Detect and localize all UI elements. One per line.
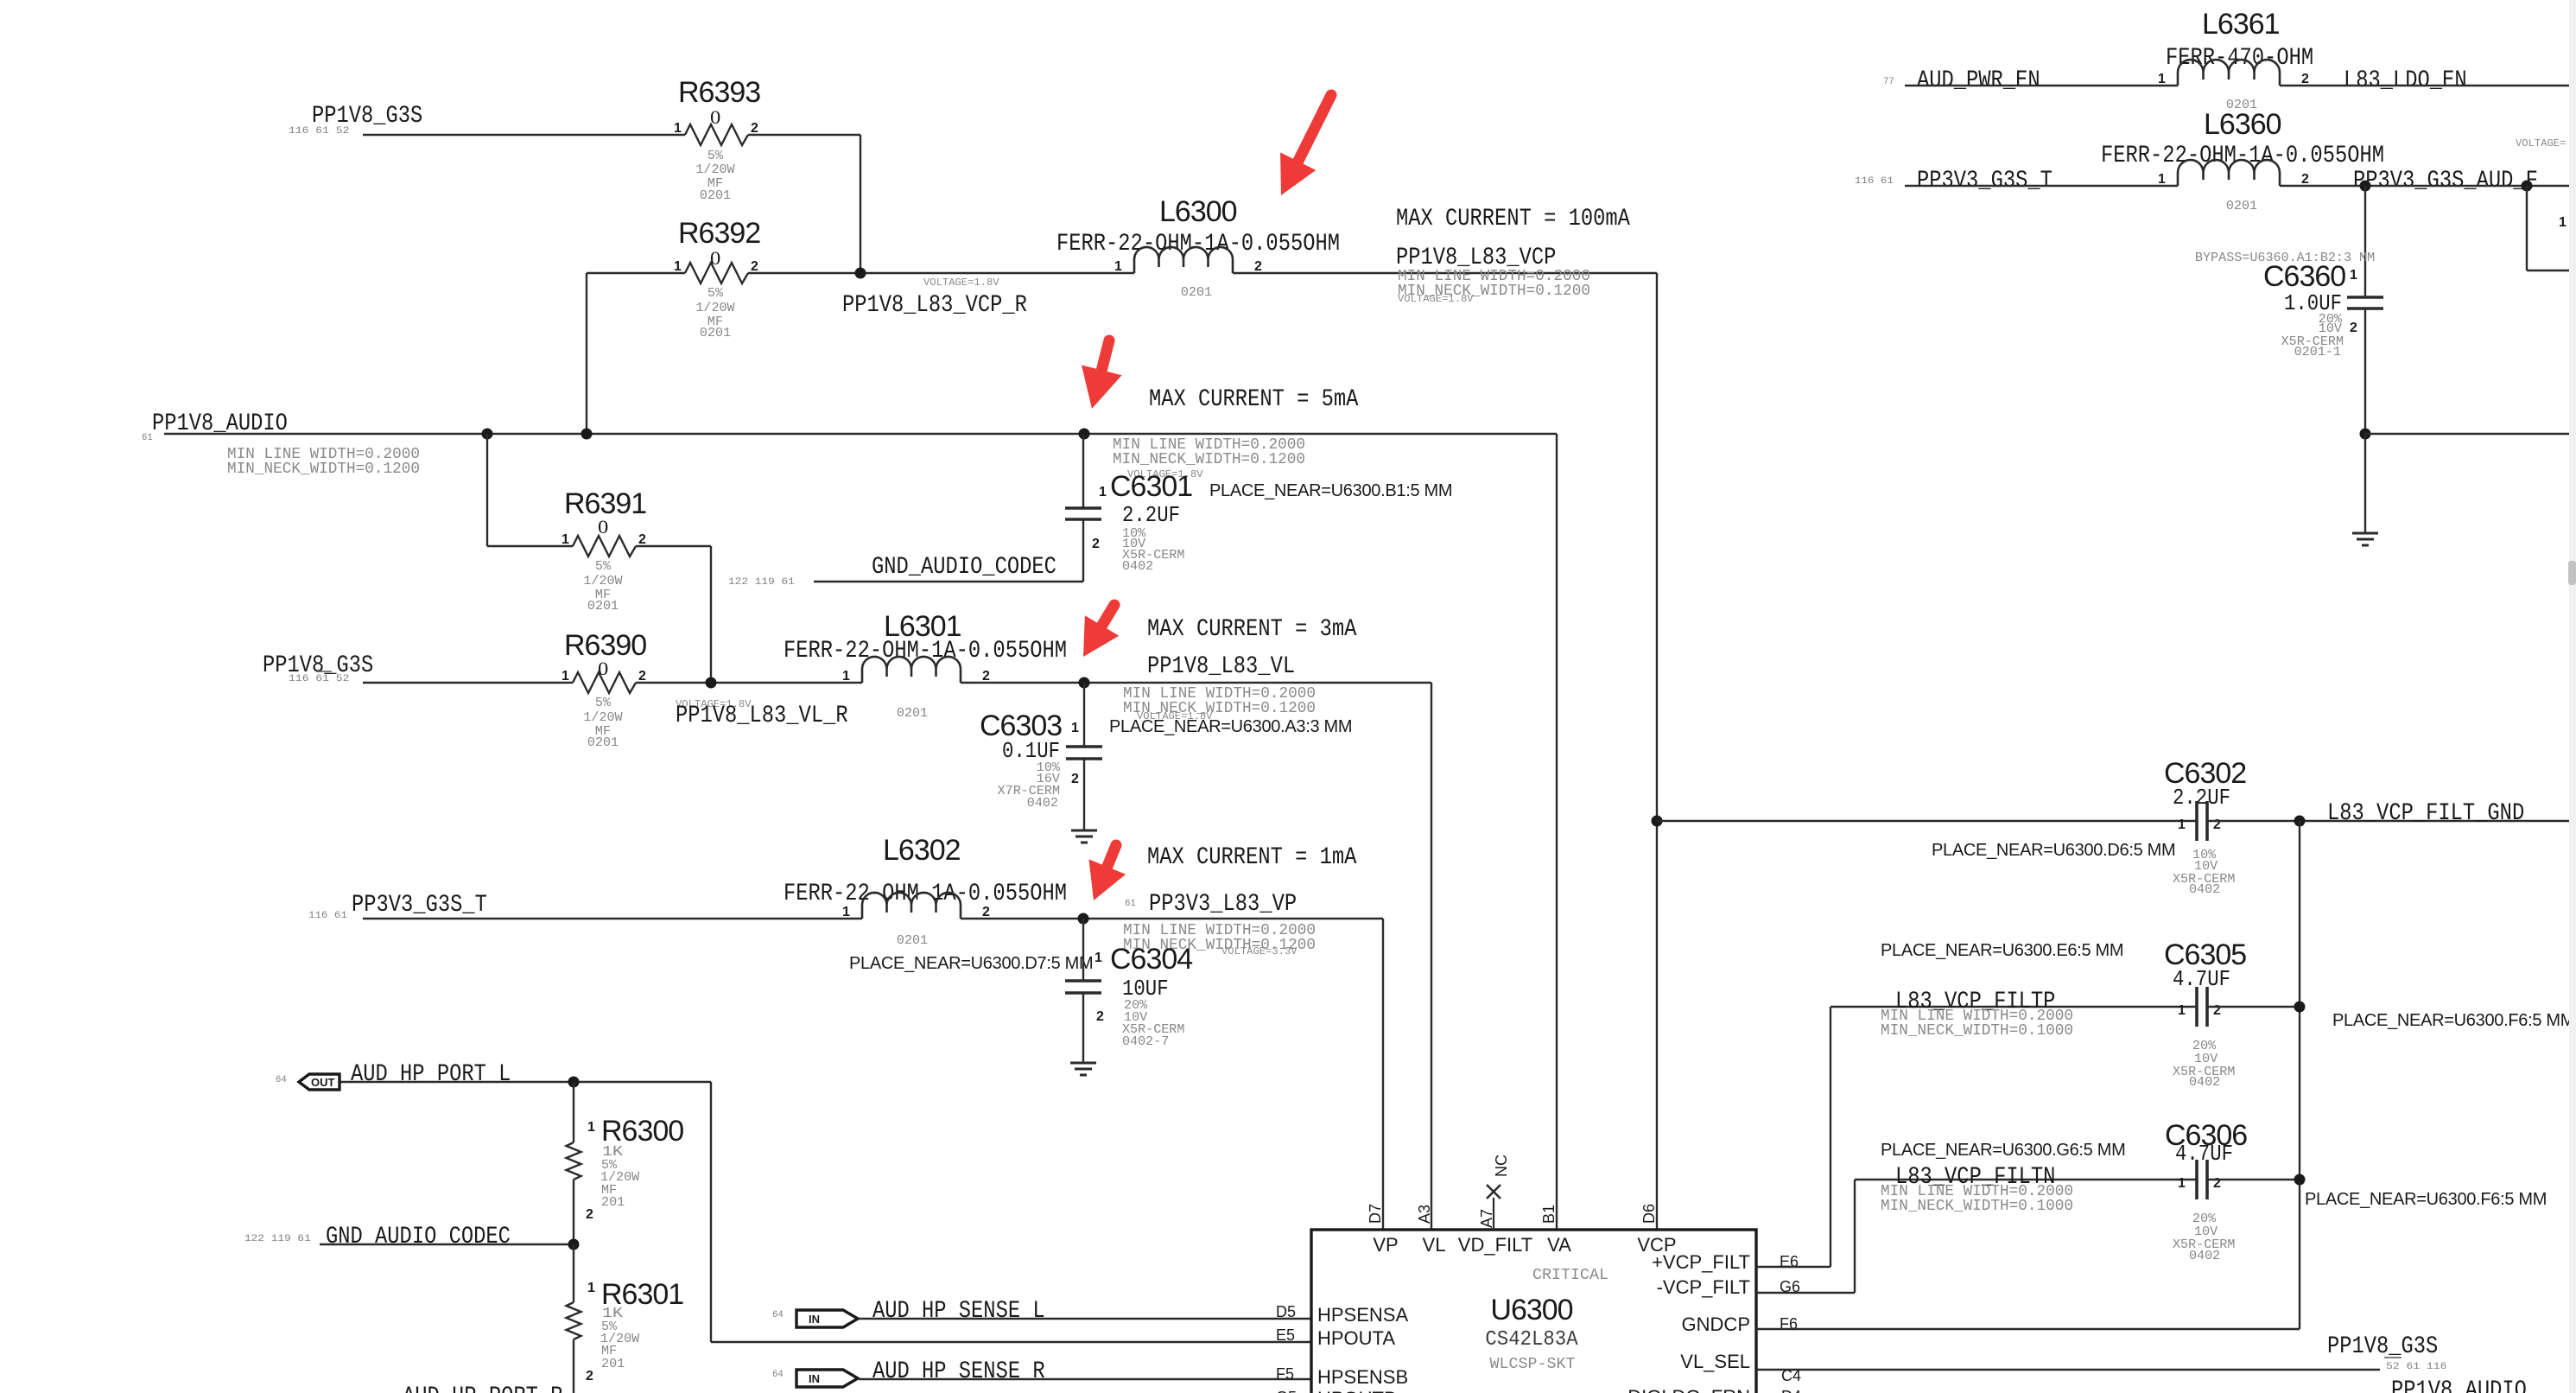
wire branch down	[2526, 186, 2528, 270]
wire to C6305 pin1	[1830, 1006, 2197, 1008]
wire +VCP_FILT pin E6 stub	[1756, 1266, 1830, 1268]
inductor L6302	[784, 834, 1067, 948]
wire L6302 pin2 PP3V3_L83_VP	[961, 918, 1383, 919]
svg-text:116 61 52: 116 61 52	[289, 674, 349, 684]
wire C6301 bottom lead	[1082, 519, 1084, 582]
svg-text:MAX CURRENT = 1mA: MAX CURRENT = 1mA	[1147, 844, 1357, 871]
svg-text:5%: 5%	[595, 559, 612, 574]
junction R6390/R6391	[706, 677, 717, 689]
svg-text:201: 201	[601, 1357, 625, 1371]
wire C6301 top lead	[1082, 434, 1084, 508]
svg-text:2: 2	[751, 259, 758, 274]
wire PP1V8_L83_VCP down to U6300 VCP pin D6	[1656, 273, 1658, 1230]
wire R6301 top lead	[573, 1244, 574, 1302]
svg-text:1/20W: 1/20W	[695, 162, 734, 177]
junction C6306 to bus	[2294, 1174, 2306, 1186]
svg-text:1: 1	[842, 905, 850, 919]
svg-text:HPOUTA: HPOUTA	[1317, 1327, 1395, 1349]
inductor L6360 coil	[2178, 160, 2280, 186]
IN port flag (AUD_HP_SENSE_R)	[796, 1370, 858, 1387]
wire R6392 pin2 to L6300	[748, 272, 1134, 274]
svg-text:PP3V3_L83_VP: PP3V3_L83_VP	[1149, 891, 1297, 918]
wire C6303 bottom lead	[1083, 759, 1085, 830]
resistor R6300 zigzag	[567, 1142, 581, 1180]
wire C6303 top lead	[1083, 683, 1085, 747]
svg-text:1/20W: 1/20W	[695, 301, 734, 315]
wire to C6302 pin1	[1657, 820, 2197, 822]
svg-text:2: 2	[1092, 537, 1100, 551]
svg-text:0402: 0402	[2189, 1249, 2220, 1263]
junction C6305 to bus	[2294, 1002, 2306, 1013]
wire VL_SEL C4 to PP1V8_G3S	[1756, 1369, 2380, 1371]
svg-text:HPSENSB: HPSENSB	[1317, 1366, 1408, 1388]
inductor L6300 coil	[1134, 247, 1233, 273]
inductor L6301	[784, 610, 1067, 721]
svg-text:FERR-22-OHM-1A-0.055OHM: FERR-22-OHM-1A-0.055OHM	[784, 638, 1067, 665]
annotation red arrow 2 (MAX CURRENT 5mA)	[1082, 340, 1122, 409]
junction PP3V3_L83_VP to C6304	[1078, 913, 1089, 925]
capacitor C6301 plates	[1065, 506, 1101, 510]
svg-text:DIGLDO_FRN: DIGLDO_FRN	[1627, 1386, 1750, 1393]
svg-text:0201-1: 0201-1	[2294, 345, 2341, 359]
svg-text:+VCP_FILT: +VCP_FILT	[1652, 1251, 1750, 1273]
wire PP3V3_G3S_T to L6360	[1905, 185, 2178, 187]
svg-text:FERR-22-OHM-1A-0.055OHM: FERR-22-OHM-1A-0.055OHM	[2101, 143, 2384, 169]
svg-text:1/20W: 1/20W	[583, 574, 622, 588]
svg-text:R6392: R6392	[678, 217, 760, 250]
svg-text:0: 0	[598, 516, 608, 537]
svg-text:4.7UF: 4.7UF	[2173, 966, 2230, 992]
wire R6391 pin1 lead	[487, 545, 573, 547]
svg-text:PP3V3_G3S_T: PP3V3_G3S_T	[1917, 168, 2053, 194]
svg-text:CS42L83A: CS42L83A	[1485, 1328, 1578, 1352]
op-amp U6300 CS42L83A audio codec IC box	[1311, 1230, 1756, 1393]
svg-text:NC: NC	[1493, 1154, 1510, 1177]
wire G6 up	[1854, 1180, 1856, 1293]
svg-text:B1: B1	[1540, 1205, 1558, 1224]
svg-text:PP1V8_AUDIO: PP1V8_AUDIO	[2391, 1377, 2527, 1393]
wire GNDCP F6 to bus	[1756, 1328, 2300, 1330]
svg-text:64: 64	[772, 1370, 784, 1380]
svg-text:2: 2	[2213, 1003, 2221, 1018]
svg-text:PLACE_NEAR=U6300.E6:5 MM: PLACE_NEAR=U6300.E6:5 MM	[1881, 941, 2123, 960]
svg-text:OUT: OUT	[311, 1076, 335, 1089]
svg-text:116 61: 116 61	[1855, 176, 1894, 187]
svg-text:2: 2	[2350, 321, 2357, 335]
svg-text:1: 1	[562, 532, 569, 547]
svg-text:MIN_NECK_WIDTH=0.1000: MIN_NECK_WIDTH=0.1000	[1881, 1022, 2073, 1040]
wire E6 up	[1830, 1007, 1831, 1267]
svg-text:WLCSP-SKT: WLCSP-SKT	[1490, 1356, 1576, 1373]
wire C6305 pin2 to bus	[2207, 1006, 2300, 1008]
svg-text:PLACE_NEAR=U6300.F6:5 MM: PLACE_NEAR=U6300.F6:5 MM	[2305, 1190, 2547, 1209]
svg-text:AUD_HP_PORT_R: AUD_HP_PORT_R	[403, 1383, 563, 1393]
svg-text:1: 1	[842, 669, 850, 684]
svg-text:2: 2	[638, 532, 646, 547]
wire C6360 junction down to ground	[2364, 434, 2366, 533]
svg-text:R6393: R6393	[678, 76, 760, 109]
svg-text:52 61 116: 52 61 116	[2386, 1362, 2446, 1372]
resistor R6392 zigzag	[685, 263, 748, 283]
svg-text:2: 2	[2301, 72, 2309, 86]
ground below C6303	[1071, 830, 1097, 832]
svg-text:E5: E5	[1276, 1326, 1295, 1344]
svg-text:AUD_HP_PORT_L: AUD_HP_PORT_L	[351, 1061, 511, 1088]
capacitor C6302	[2164, 757, 2246, 897]
capacitor C6360 plates	[2347, 296, 2383, 299]
wire C6304 top lead	[1082, 919, 1084, 981]
svg-text:1: 1	[2178, 1176, 2186, 1191]
wire R6392 pin1 left	[587, 272, 685, 274]
junction PP1V8_L83_VL to C6303	[1079, 677, 1090, 689]
svg-text:0201: 0201	[587, 735, 619, 750]
scrollbar thumb	[2568, 561, 2576, 585]
svg-text:PP3V3_G3S_AUD_F: PP3V3_G3S_AUD_F	[2353, 168, 2538, 194]
svg-text:1: 1	[587, 1281, 595, 1295]
junction PP1V8_L83_VCP to C6302	[1652, 816, 1663, 827]
svg-text:2: 2	[982, 669, 990, 684]
wire from C6360 junction to edge	[2365, 433, 2569, 435]
resistor R6301	[567, 1244, 684, 1393]
wire PP3V3_L83_VP down to U6300 VP pin D7	[1382, 919, 1384, 1230]
wire R6300 bottom lead	[573, 1180, 574, 1244]
svg-text:0201: 0201	[2226, 199, 2257, 213]
svg-text:VOLTAGE=3.3V: VOLTAGE=3.3V	[1221, 945, 1298, 957]
wire C6360 bottom lead	[2364, 308, 2366, 434]
svg-text:4.7UF: 4.7UF	[2175, 1141, 2233, 1167]
svg-text:D7: D7	[1367, 1204, 1384, 1224]
capacitor C6305 plates	[2195, 987, 2198, 1027]
IN port flag (AUD_HP_SENSE_L)	[796, 1310, 858, 1327]
capacitor C6304	[1065, 919, 1192, 1062]
svg-text:1: 1	[2559, 215, 2566, 230]
svg-text:2: 2	[982, 905, 990, 919]
wire to U6300 HPOUTA pin E5	[711, 1341, 1311, 1343]
wire C6302 pin2 L83_VCP_FILT_GND	[2207, 820, 2569, 822]
svg-text:C6360: C6360	[2263, 260, 2345, 293]
svg-text:0201: 0201	[587, 599, 619, 614]
svg-text:5%: 5%	[707, 286, 724, 301]
svg-text:0402: 0402	[2189, 882, 2220, 897]
annotation red arrow 1 (L6300)	[1280, 95, 1331, 195]
svg-text:AUD_HP_SENSE_L: AUD_HP_SENSE_L	[872, 1298, 1045, 1325]
resistor R6300	[567, 1082, 684, 1244]
capacitor C6360	[2195, 186, 2383, 434]
svg-text:MIN_NECK_WIDTH=0.1000: MIN_NECK_WIDTH=0.1000	[1881, 1198, 2073, 1215]
svg-text:116 61: 116 61	[308, 911, 347, 921]
svg-text:0201: 0201	[700, 326, 731, 340]
svg-text:1: 1	[674, 259, 682, 274]
wire L6360 pin2 PP3V3_G3S_AUD_F to edge	[2280, 185, 2569, 187]
junction L83_VCP_FILT_GND bus	[2294, 816, 2306, 827]
svg-text:1: 1	[2178, 817, 2186, 832]
scrollbar track (screenshot artifact)	[2569, 0, 2576, 1393]
svg-text:2.2UF: 2.2UF	[1122, 502, 1180, 528]
svg-text:2: 2	[1096, 1009, 1104, 1024]
wire GND_AUDIO_CODEC to C6301 pin2	[814, 581, 1083, 582]
svg-text:L83_LDO_EN: L83_LDO_EN	[2344, 67, 2467, 94]
svg-text:MAX CURRENT = 3mA: MAX CURRENT = 3mA	[1147, 616, 1357, 643]
wire PP1V8_AUDIO down to U6300 VA pin B1	[1556, 434, 1558, 1230]
svg-text:1: 1	[587, 1120, 595, 1135]
svg-text:2: 2	[2301, 172, 2309, 187]
svg-text:MAX CURRENT = 100mA: MAX CURRENT = 100mA	[1396, 206, 1630, 232]
svg-text:0201: 0201	[897, 706, 928, 721]
svg-text:C6304: C6304	[1110, 943, 1192, 976]
svg-text:C6301: C6301	[1110, 470, 1192, 503]
svg-text:64: 64	[772, 1310, 784, 1320]
svg-text:MAX CURRENT = 5mA: MAX CURRENT = 5mA	[1149, 386, 1359, 413]
svg-text:AUD_PWR_EN: AUD_PWR_EN	[1917, 67, 2040, 94]
wire R6391 down to PP1V8_L83_VL_R	[710, 546, 712, 683]
svg-text:F5: F5	[1276, 1365, 1294, 1383]
svg-text:1: 1	[2178, 1003, 2186, 1018]
svg-text:0201: 0201	[1181, 285, 1212, 300]
wire R6393 pin2 right	[748, 134, 860, 136]
svg-text:VOLTAGE=1.8V: VOLTAGE=1.8V	[923, 277, 999, 289]
wire R6300 top lead	[573, 1082, 574, 1142]
svg-text:VA: VA	[1547, 1234, 1571, 1256]
wire C6360 top lead	[2364, 186, 2366, 297]
svg-text:VOLTAGE=1.8V: VOLTAGE=1.8V	[1398, 293, 1474, 305]
wire AUD_HP_SENSE_L to HPSENSA pin D5	[859, 1318, 1311, 1320]
svg-text:G5: G5	[1276, 1389, 1297, 1393]
svg-text:1: 1	[2158, 72, 2166, 86]
svg-text:77: 77	[1883, 77, 1894, 87]
svg-text:2: 2	[1254, 259, 1262, 274]
wire AUD_HP_SENSE_R to HPSENSB pin F5	[859, 1378, 1311, 1380]
svg-text:0201: 0201	[700, 188, 731, 203]
resistor R6393 zigzag	[685, 124, 748, 145]
svg-text:GND_AUDIO_CODEC: GND_AUDIO_CODEC	[326, 1224, 511, 1250]
overline over page ref 61	[316, 671, 332, 672]
junction AUD_HP_PORT_L to R6300	[568, 1077, 580, 1088]
svg-text:2: 2	[586, 1369, 593, 1383]
OUT port flag	[299, 1074, 339, 1090]
wire AUD_HP_PORT_L down	[710, 1082, 712, 1342]
capacitor C6304 plates	[1065, 979, 1101, 983]
svg-text:1: 1	[1071, 721, 1079, 735]
svg-text:L6300: L6300	[1159, 195, 1237, 228]
capacitor C6303	[980, 683, 1102, 830]
junction PP3V3_G3S_AUD_F to C6360	[2360, 181, 2371, 192]
wire PP1V8_G3S to R6390 pin1	[363, 682, 573, 684]
wire R6393 down to R6392 output	[860, 135, 861, 273]
wire R6390 pin2 to L6301	[636, 682, 862, 684]
wire L6361 pin2 L83_LDO_EN to edge	[2280, 85, 2569, 86]
svg-text:U6300: U6300	[1490, 1294, 1572, 1326]
svg-text:5%: 5%	[707, 149, 724, 163]
svg-text:0402: 0402	[1027, 796, 1058, 811]
annotation red arrow 3 (PP1V8_L83_VL)	[1083, 605, 1119, 657]
svg-text:R6300: R6300	[601, 1115, 683, 1148]
svg-text:L6361: L6361	[2202, 8, 2280, 41]
svg-text:MIN_NECK_WIDTH=0.1200: MIN_NECK_WIDTH=0.1200	[1113, 451, 1305, 468]
resistor R6301 zigzag	[567, 1302, 581, 1339]
svg-text:2: 2	[2213, 1176, 2221, 1191]
svg-text:PLACE_NEAR=U6300.A3:3 MM: PLACE_NEAR=U6300.A3:3 MM	[1109, 717, 1352, 736]
svg-text:VD_FILT: VD_FILT	[1458, 1234, 1532, 1256]
wire VD_FILT stub	[1493, 1198, 1494, 1230]
svg-text:2: 2	[638, 669, 646, 684]
svg-text:MIN_NECK_WIDTH=0.1200: MIN_NECK_WIDTH=0.1200	[227, 461, 420, 478]
inductor L6302 coil	[862, 893, 961, 919]
resistor R6391 zigzag	[573, 536, 636, 557]
svg-text:HPOUTB: HPOUTB	[1317, 1388, 1397, 1393]
wire vertical bus L83_VCP_FILT_GND	[2299, 821, 2300, 1329]
capacitor C6303 plates	[1066, 745, 1102, 748]
svg-text:A3: A3	[1416, 1205, 1433, 1224]
svg-text:PLACE_NEAR=U6300.B1:5 MM: PLACE_NEAR=U6300.B1:5 MM	[1209, 481, 1452, 500]
inductor L6300	[1056, 195, 1340, 300]
svg-text:61: 61	[1125, 899, 1136, 909]
svg-text:2: 2	[1071, 772, 1079, 786]
wire branch right to edge	[2527, 270, 2569, 271]
svg-text:0402-7: 0402-7	[1122, 1034, 1169, 1049]
svg-text:2: 2	[586, 1207, 593, 1222]
overline over page ref 52	[2384, 1357, 2402, 1358]
svg-text:2: 2	[751, 121, 758, 136]
svg-text:GNDCP: GNDCP	[1682, 1313, 1750, 1335]
svg-text:AUD_HP_SENSE_R: AUD_HP_SENSE_R	[872, 1358, 1045, 1385]
capacitor C6306 plates	[2195, 1160, 2198, 1199]
wire down to R6391 pin1	[486, 434, 488, 546]
wire AUD_HP_PORT_L	[340, 1081, 711, 1083]
wire R6301 bottom lead	[573, 1339, 574, 1393]
svg-text:VOLTAGE=: VOLTAGE=	[2516, 137, 2566, 149]
svg-text:-VCP_FILT: -VCP_FILT	[1657, 1276, 1750, 1298]
svg-text:D6: D6	[1640, 1204, 1658, 1224]
svg-text:VL_SEL: VL_SEL	[1680, 1351, 1750, 1372]
svg-text:2: 2	[2213, 817, 2221, 832]
wire PP1V8_AUDIO horizontal	[164, 433, 1557, 435]
svg-text:L83_VCP_FILT_GND: L83_VCP_FILT_GND	[2327, 800, 2524, 827]
svg-text:1: 1	[562, 669, 569, 684]
svg-text:FERR-22-OHM-1A-0.055OHM: FERR-22-OHM-1A-0.055OHM	[784, 881, 1067, 907]
resistor R6393	[674, 76, 760, 203]
svg-text:PP1V8_L83_VCP_R: PP1V8_L83_VCP_R	[842, 292, 1027, 319]
svg-text:64: 64	[276, 1075, 287, 1085]
svg-text:1/20W: 1/20W	[583, 710, 622, 725]
resistor R6392	[674, 217, 760, 340]
svg-text:D5: D5	[1276, 1303, 1296, 1320]
svg-text:1: 1	[674, 121, 682, 136]
annotation red arrow 4 (PP3V3_L83_VP)	[1089, 845, 1126, 900]
svg-text:HPSENSA: HPSENSA	[1317, 1304, 1408, 1326]
wire L6301 pin2 PP1V8_L83_VL	[961, 682, 1431, 684]
svg-text:VP: VP	[1373, 1234, 1398, 1256]
inductor L6301 coil	[862, 657, 961, 683]
svg-text:2.2UF: 2.2UF	[2173, 785, 2230, 811]
svg-text:PLACE_NEAR=U6300.D7:5 MM: PLACE_NEAR=U6300.D7:5 MM	[849, 954, 1093, 973]
svg-text:122 119 61: 122 119 61	[244, 1234, 311, 1244]
inductor L6360	[2101, 108, 2384, 213]
svg-text:1: 1	[1114, 259, 1122, 274]
svg-text:0201: 0201	[897, 933, 928, 948]
wire -VCP_FILT pin G6 stub	[1756, 1292, 1855, 1294]
svg-text:0402: 0402	[1122, 559, 1153, 574]
junction GND_AUDIO_CODEC / R6300 / R6301	[568, 1239, 580, 1250]
svg-text:116 61 52: 116 61 52	[289, 126, 349, 137]
capacitor C6305	[2164, 938, 2246, 1090]
junction PP1V8_AUDIO to R6392	[581, 429, 593, 440]
svg-text:L6302: L6302	[883, 834, 961, 867]
inductor L6361	[2158, 8, 2313, 112]
wire PP1V8_L83_VL down to U6300 VL pin A3	[1431, 683, 1432, 1230]
inductor L6361 coil	[2178, 60, 2280, 86]
svg-text:IN: IN	[809, 1372, 820, 1385]
wire R6391 pin2 lead	[636, 545, 711, 547]
svg-text:1: 1	[1099, 485, 1107, 499]
wire C6306 pin2 to bus	[2207, 1179, 2300, 1180]
ground below C6304	[1070, 1062, 1096, 1065]
junction C6360 to ground branch	[2360, 429, 2371, 440]
wire PP1V8_G3S to R6393 pin1	[363, 134, 685, 136]
svg-text:122 119 61: 122 119 61	[728, 577, 795, 588]
svg-text:0402: 0402	[2189, 1075, 2220, 1090]
svg-text:PP1V8_G3S: PP1V8_G3S	[2327, 1333, 2438, 1360]
svg-text:PLACE_NEAR=U6300.F6:5 MM: PLACE_NEAR=U6300.F6:5 MM	[2332, 1011, 2574, 1030]
wire AUD_PWR_EN to L6361	[1905, 85, 2178, 86]
capacitor C6301	[1065, 434, 1192, 582]
junction PP1V8_AUDIO to R6391	[482, 429, 493, 440]
capacitor C6302 plates	[2195, 801, 2198, 841]
svg-text:PP3V3_G3S_T: PP3V3_G3S_T	[352, 892, 487, 919]
wire PP3V3_G3S_T to L6302	[363, 918, 862, 919]
svg-text:1: 1	[2158, 172, 2166, 187]
svg-text:FERR-470-OHM: FERR-470-OHM	[2166, 45, 2313, 72]
svg-text:FERR-22-OHM-1A-0.055OHM: FERR-22-OHM-1A-0.055OHM	[1056, 231, 1340, 258]
svg-text:D4: D4	[1781, 1388, 1801, 1393]
svg-text:1: 1	[2350, 268, 2357, 283]
wire GND_AUDIO_CODEC lower	[320, 1244, 574, 1245]
svg-text:L6360: L6360	[2204, 108, 2281, 141]
wire C6304 bottom lead	[1082, 993, 1084, 1062]
svg-text:PLACE_NEAR=U6300.G6:5 MM: PLACE_NEAR=U6300.G6:5 MM	[1881, 1141, 2125, 1160]
resistor R6391	[562, 487, 646, 614]
svg-text:1: 1	[1094, 951, 1102, 965]
capacitor C6306	[2165, 1119, 2247, 1263]
wire L6300 pin2 PP1V8_L83_VCP	[1233, 272, 1657, 274]
svg-text:IN: IN	[809, 1313, 820, 1326]
svg-text:CRITICAL: CRITICAL	[1532, 1267, 1608, 1284]
resistor R6390 zigzag	[573, 672, 636, 693]
svg-text:PP1V8_L83_VL_R: PP1V8_L83_VL_R	[676, 703, 848, 729]
junction PP1V8_AUDIO to C6301	[1079, 429, 1090, 440]
svg-text:201: 201	[601, 1195, 625, 1210]
junction PP3V3_G3S_AUD_F to branch	[2522, 181, 2533, 192]
wire to C6306 pin1	[1855, 1179, 2197, 1180]
svg-text:61: 61	[142, 433, 153, 443]
ground below C6360	[2352, 532, 2378, 535]
svg-text:GND_AUDIO_CODEC: GND_AUDIO_CODEC	[872, 554, 1056, 581]
svg-text:5%: 5%	[595, 696, 612, 710]
wire R6392 down to PP1V8_AUDIO	[586, 273, 587, 434]
svg-text:PP1V8_L83_VL: PP1V8_L83_VL	[1147, 653, 1295, 680]
resistor R6390	[562, 629, 646, 750]
svg-text:VL: VL	[1423, 1234, 1446, 1256]
junction R6393/R6392 outputs	[855, 268, 866, 279]
svg-text:PLACE_NEAR=U6300.D6:5 MM: PLACE_NEAR=U6300.D6:5 MM	[1932, 841, 2175, 860]
